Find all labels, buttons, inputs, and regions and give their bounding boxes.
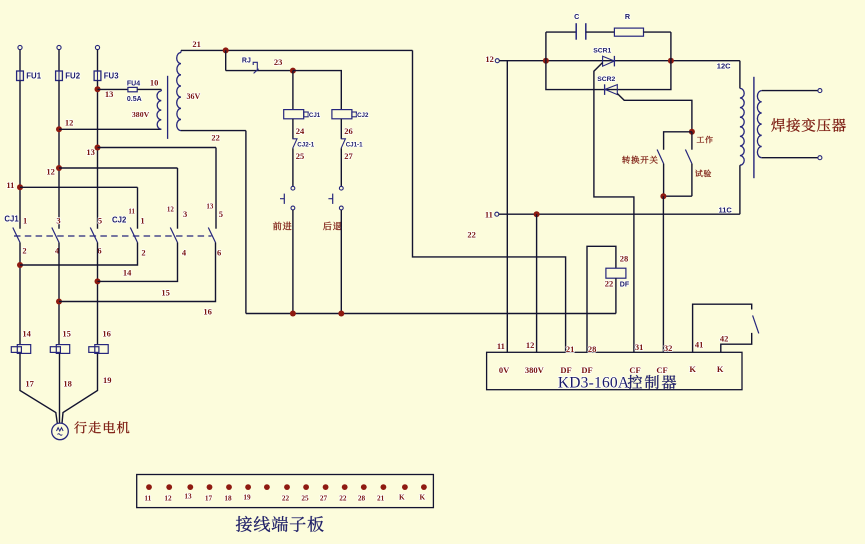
node 12 junction (to CJ2 pole 2) <box>56 165 62 171</box>
terminal L3 (supply) <box>95 45 99 49</box>
svg-text:1: 1 <box>140 216 144 226</box>
svg-text:11: 11 <box>144 494 151 503</box>
svg-text:11: 11 <box>128 208 135 216</box>
welding secondary top lead <box>762 90 818 92</box>
svg-text:15: 15 <box>161 287 170 297</box>
svg-text:21: 21 <box>192 39 201 49</box>
control transformer secondary winding 36V <box>177 53 181 131</box>
terminal 12 <box>495 59 499 63</box>
wire 13 rail <box>98 147 217 149</box>
label selector switch <box>622 156 657 164</box>
wire 12 rail <box>499 60 740 62</box>
svg-text:13: 13 <box>105 89 114 99</box>
node 21 junction <box>223 47 229 53</box>
control transformer primary winding 380V <box>157 91 161 129</box>
svg-text:15: 15 <box>62 329 71 339</box>
wire CJ1 pole3 lower <box>97 243 99 345</box>
svg-text:5: 5 <box>98 216 102 226</box>
wire cap to resistor <box>586 31 615 33</box>
svg-text:13: 13 <box>206 202 214 210</box>
svg-text:23: 23 <box>274 57 283 67</box>
motor M circle <box>52 423 69 440</box>
svg-text:380V: 380V <box>132 110 150 119</box>
svg-text:31: 31 <box>635 342 644 352</box>
wire 12 to transformer primary bottom <box>59 128 161 130</box>
svg-text:K: K <box>689 364 696 374</box>
controller box KD3-160A <box>487 352 742 389</box>
svg-text:12: 12 <box>164 494 172 503</box>
wire 21 drop to RJ <box>225 50 227 70</box>
node 11-0V junction <box>534 211 540 217</box>
SCR2 gate wire <box>617 94 692 132</box>
terminal 11 <box>495 212 499 216</box>
wire 15 cross link <box>98 243 178 282</box>
svg-text:36V: 36V <box>187 92 201 101</box>
wire snubber left riser <box>545 32 547 61</box>
wire CJ1 pole1 lower <box>19 243 21 345</box>
control transformer core <box>167 76 169 139</box>
svg-text:14: 14 <box>22 329 31 339</box>
svg-text:KD3-160A: KD3-160A <box>558 375 630 392</box>
thermal overload heater 16 <box>95 345 108 354</box>
wire 19 to motor <box>62 353 98 423</box>
selector switch left branch <box>664 132 692 150</box>
CJ1 contact pole 5-6 <box>90 228 97 243</box>
svg-text:6: 6 <box>217 248 221 258</box>
svg-text:FU4: FU4 <box>127 80 140 87</box>
welding secondary bottom lead <box>762 157 818 159</box>
svg-text:0.5A: 0.5A <box>127 96 142 103</box>
wire 11 rail <box>499 213 740 215</box>
svg-text:CJ1-1: CJ1-1 <box>346 141 363 148</box>
wire 27 <box>340 148 342 186</box>
svg-text:17: 17 <box>205 494 213 503</box>
svg-text:10: 10 <box>150 77 159 87</box>
label test <box>695 170 711 177</box>
fuse FU4 <box>128 87 137 91</box>
svg-text:K: K <box>717 364 724 374</box>
svg-text:21: 21 <box>377 494 385 503</box>
wire 16 cross link <box>59 243 216 302</box>
svg-text:22: 22 <box>282 494 290 503</box>
relay coil DF <box>606 268 626 278</box>
wire 24 <box>292 119 294 139</box>
node junction forward-rail <box>290 311 296 317</box>
wire 380V drop (12) <box>536 214 538 352</box>
wire 11 rail <box>20 186 138 188</box>
relay coil CJ1 <box>284 110 304 119</box>
wire 14 cross link <box>20 243 138 266</box>
node selector common junction <box>689 129 695 135</box>
svg-text:19: 19 <box>243 493 251 502</box>
CJ2 pole 2 top lead <box>177 168 179 229</box>
svg-text:19: 19 <box>103 375 112 385</box>
wire 13 to FU4 <box>98 88 128 90</box>
label terminal board title <box>236 516 324 532</box>
welding transformer secondary winding <box>757 91 761 158</box>
svg-text:11: 11 <box>497 341 505 351</box>
svg-text:27: 27 <box>320 494 328 503</box>
wire RJ row <box>226 70 293 72</box>
svg-text:13: 13 <box>86 147 95 157</box>
thermal overload heater 15 <box>56 345 69 354</box>
contactor linkage dashed line <box>14 235 212 237</box>
CJ1 contact pole 3-4 <box>52 228 59 243</box>
terminal L1 (supply) <box>18 45 22 49</box>
svg-text:380V: 380V <box>525 365 545 375</box>
CJ2 pole 3 top lead <box>215 148 217 229</box>
wire 23 to CJ1 coil <box>292 71 294 110</box>
welding transformer primary lead top <box>739 61 741 89</box>
svg-text:22: 22 <box>605 278 614 288</box>
svg-text:1: 1 <box>23 216 27 226</box>
svg-text:R: R <box>625 12 631 21</box>
CJ2 contact blade <box>170 228 177 243</box>
node 14 junction <box>17 262 23 268</box>
label work <box>697 136 713 143</box>
svg-text:0V: 0V <box>499 365 510 375</box>
wire backward button down <box>340 210 342 314</box>
svg-text:41: 41 <box>695 340 704 350</box>
svg-text:DF: DF <box>581 365 592 375</box>
wire CJ1 pole2 lower <box>58 243 60 345</box>
svg-text:2: 2 <box>141 248 145 258</box>
thyristor SCR1 <box>603 56 615 66</box>
svg-text:28: 28 <box>620 253 629 263</box>
wire 21 long drop <box>413 50 566 352</box>
wire FU4 to transformer primary <box>137 88 161 90</box>
thermal relay contact RJ <box>253 62 257 70</box>
svg-text:28: 28 <box>358 494 366 503</box>
svg-text:FU1: FU1 <box>26 72 41 81</box>
node 16 junction <box>56 299 62 305</box>
svg-text:21: 21 <box>566 344 575 354</box>
welding transformer primary lead bottom <box>739 165 741 214</box>
K switch loop <box>693 304 752 352</box>
wire 22 bottom rail <box>246 313 616 315</box>
node 23 junction <box>290 68 296 74</box>
label forward <box>273 222 292 231</box>
svg-text:17: 17 <box>25 379 34 389</box>
wire 32 drop <box>662 196 664 352</box>
svg-text:42: 42 <box>720 334 729 344</box>
node SCR left junction <box>543 58 549 64</box>
fuse FU1 <box>17 71 24 81</box>
pushbutton backward contacts <box>339 186 343 190</box>
wire DF bottom to 22 rail <box>615 278 617 313</box>
thermal overload heater 14 <box>17 345 30 354</box>
svg-text:K: K <box>399 493 405 502</box>
svg-text:CJ2: CJ2 <box>112 216 127 225</box>
NC interlock contact CJ1-1 <box>341 139 346 149</box>
SCR1 gate wire <box>594 63 634 353</box>
svg-text:14: 14 <box>123 268 132 278</box>
wire 12 rail <box>59 167 178 169</box>
label backward <box>323 222 341 231</box>
svg-text:2: 2 <box>22 246 26 256</box>
svg-text:27: 27 <box>344 151 353 161</box>
svg-text:11: 11 <box>485 209 493 219</box>
svg-text:25: 25 <box>301 494 309 503</box>
svg-text:24: 24 <box>296 126 305 136</box>
node 13 junction (FU4 tap) <box>95 86 101 92</box>
wire L3 drop to fuse <box>97 50 99 71</box>
svg-text:22: 22 <box>467 229 476 239</box>
wire L3 fuse to CJ1 contact <box>97 81 99 229</box>
CJ2 contact blade <box>208 228 215 243</box>
wire 18 to motor <box>59 353 61 423</box>
svg-text:11C: 11C <box>719 205 733 214</box>
wire forward button down <box>292 210 294 314</box>
pushbutton forward contacts <box>291 186 295 190</box>
wire L1 drop to fuse <box>19 50 21 71</box>
svg-text:CJ2-1: CJ2-1 <box>297 141 314 148</box>
wire 25 <box>292 148 294 186</box>
svg-text:12: 12 <box>46 167 55 177</box>
wire L2 drop to fuse <box>58 50 60 71</box>
fuse FU3 <box>94 71 101 81</box>
wire 22 secondary bottom <box>181 130 246 132</box>
svg-text:RJ: RJ <box>242 58 251 65</box>
terminal L2 (supply) <box>57 45 61 49</box>
svg-text:16: 16 <box>203 306 212 316</box>
wire L2 fuse to CJ1 contact <box>58 81 60 229</box>
svg-text:12: 12 <box>65 118 74 128</box>
wire 26 <box>340 119 342 139</box>
relay coil CJ2 <box>332 110 352 119</box>
svg-text:CF: CF <box>656 365 667 375</box>
wire 17 to motor <box>20 353 57 423</box>
svg-text:18: 18 <box>224 494 232 503</box>
svg-text:12: 12 <box>485 54 494 64</box>
label walking motor <box>74 421 129 433</box>
svg-text:32: 32 <box>664 343 673 353</box>
svg-text:CJ1: CJ1 <box>4 215 19 224</box>
wire 22 left drop <box>245 131 247 314</box>
svg-text:DF: DF <box>560 365 571 375</box>
node 15 junction <box>95 278 101 284</box>
svg-text:SCR1: SCR1 <box>593 48 611 55</box>
svg-text:12C: 12C <box>717 61 731 70</box>
capacitor C <box>575 23 577 40</box>
wire 21 secondary top rail <box>181 49 413 51</box>
svg-text:FU2: FU2 <box>65 72 80 81</box>
wire resistor to right <box>644 31 671 33</box>
svg-text:CF: CF <box>629 365 640 375</box>
node 12 junction (primary return) <box>56 126 62 132</box>
svg-text:C: C <box>574 12 579 21</box>
node 13 junction (to CJ2 pole 3) <box>95 145 101 151</box>
svg-text:4: 4 <box>182 248 187 258</box>
wire L1 fuse to CJ1 contact <box>19 81 21 229</box>
svg-text:26: 26 <box>344 126 353 136</box>
svg-text:11: 11 <box>6 180 14 190</box>
selector switch right branch <box>691 132 693 150</box>
svg-text:12: 12 <box>167 205 175 213</box>
welding transformer core <box>753 77 755 178</box>
node SCR right junction <box>668 58 674 64</box>
svg-text:K: K <box>420 493 426 502</box>
svg-text:CJ2: CJ2 <box>357 112 369 119</box>
node 11 junction (to CJ2 pole 1) <box>17 184 23 190</box>
CJ2 contact blade <box>130 228 137 243</box>
node junction backward-rail <box>338 311 344 317</box>
label welding transformer <box>771 118 845 132</box>
wire SCR2 branch <box>546 61 671 90</box>
svg-text:22: 22 <box>339 494 347 503</box>
svg-text:22: 22 <box>211 133 220 143</box>
svg-text:16: 16 <box>102 329 111 339</box>
welding transformer primary winding <box>740 88 744 165</box>
svg-text:5: 5 <box>219 209 223 219</box>
svg-text:28: 28 <box>588 344 597 354</box>
CJ1 contact pole 1-2 <box>13 228 20 243</box>
CJ2 pole 1 top lead <box>137 187 139 228</box>
svg-text:3: 3 <box>56 216 60 226</box>
terminal board box <box>137 475 434 508</box>
svg-text:12: 12 <box>526 340 535 350</box>
node selector bottom junction <box>660 193 666 199</box>
svg-text:SCR2: SCR2 <box>597 76 615 83</box>
svg-text:25: 25 <box>296 151 305 161</box>
svg-text:DF: DF <box>620 281 630 288</box>
svg-text:13: 13 <box>184 492 192 501</box>
wire 28 loop <box>587 246 616 352</box>
thyristor SCR2 <box>605 85 617 95</box>
svg-text:18: 18 <box>63 379 72 389</box>
terminal board dots <box>146 484 152 490</box>
wire 0V drop (11) <box>506 61 508 353</box>
svg-text:CJ1: CJ1 <box>309 112 321 119</box>
svg-text:FU3: FU3 <box>104 72 119 81</box>
resistor R <box>614 28 643 36</box>
NC interlock contact CJ2-1 <box>292 139 297 149</box>
svg-text:3: 3 <box>183 209 187 219</box>
wire 23 to CJ2 branch <box>293 71 341 110</box>
fuse FU2 <box>56 71 63 81</box>
motor symbol glyphs <box>57 428 64 431</box>
